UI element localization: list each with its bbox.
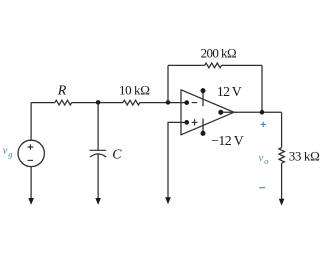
svg-text:v: v (259, 152, 264, 164)
wire noninverting input (168, 122, 187, 198)
wire feedback up (167, 65, 169, 102)
svg-text:200 kΩ: 200 kΩ (201, 46, 237, 61)
wire vg top (30, 103, 32, 141)
svg-text:R: R (57, 84, 67, 99)
svg-text:C: C (112, 147, 122, 162)
label R (57, 84, 67, 99)
wire feedback down (261, 65, 263, 112)
svg-text:g: g (8, 149, 12, 159)
svg-text:v: v (3, 145, 8, 157)
op-amp minus sign (192, 102, 198, 104)
resistor 10 kOhm (123, 100, 142, 105)
label vg (3, 145, 13, 160)
ground arrow vg (28, 198, 34, 205)
wire node A down (97, 103, 99, 151)
wire vg bottom (30, 167, 32, 199)
wire top rail left (31, 102, 55, 104)
label vo (259, 152, 269, 166)
op-amp noninverting input dot (184, 120, 189, 125)
ground arrow output (279, 199, 285, 206)
label vo minus polarity (259, 187, 265, 189)
capacitor C (90, 150, 107, 157)
wire capacitor to ground (97, 154, 99, 199)
label vo plus polarity (261, 122, 266, 127)
voltage source vg (18, 140, 44, 166)
op-amp plus sign (192, 119, 198, 125)
label 33 kOhm (289, 148, 320, 163)
resistor 33 kOhm (279, 148, 284, 164)
label 200 kOhm (201, 46, 237, 61)
label -12 V (211, 133, 244, 148)
label 10 kOhm (119, 82, 150, 97)
wire feedback top right (223, 64, 262, 66)
resistor 200 kOhm (205, 63, 223, 68)
node A junction (96, 100, 101, 105)
svg-text:12 V: 12 V (217, 84, 242, 99)
svg-text:o: o (264, 156, 268, 166)
resistor R (55, 100, 72, 105)
ground arrow opamp (165, 197, 171, 204)
node B junction (166, 100, 171, 105)
op-amp U1 (181, 90, 234, 135)
label 12 V (217, 84, 242, 99)
wire rail R to 10k (72, 102, 123, 104)
op-amp output dot (218, 110, 223, 115)
ground arrow capacitor (95, 198, 101, 205)
svg-text:10 kΩ: 10 kΩ (119, 82, 150, 97)
op-amp negative supply pin (201, 119, 206, 136)
op-amp inverting input dot (184, 100, 189, 105)
wire output down (281, 112, 283, 147)
wire output (221, 111, 282, 113)
wire 33k to ground (281, 163, 283, 200)
op-amp positive supply pin (201, 88, 206, 106)
wire feedback top left (168, 64, 205, 66)
node C junction output (260, 110, 265, 115)
svg-text:33 kΩ: 33 kΩ (289, 148, 320, 163)
label C (112, 147, 122, 162)
wire 10k to inverting input (142, 102, 187, 104)
svg-text:−12 V: −12 V (211, 133, 244, 148)
